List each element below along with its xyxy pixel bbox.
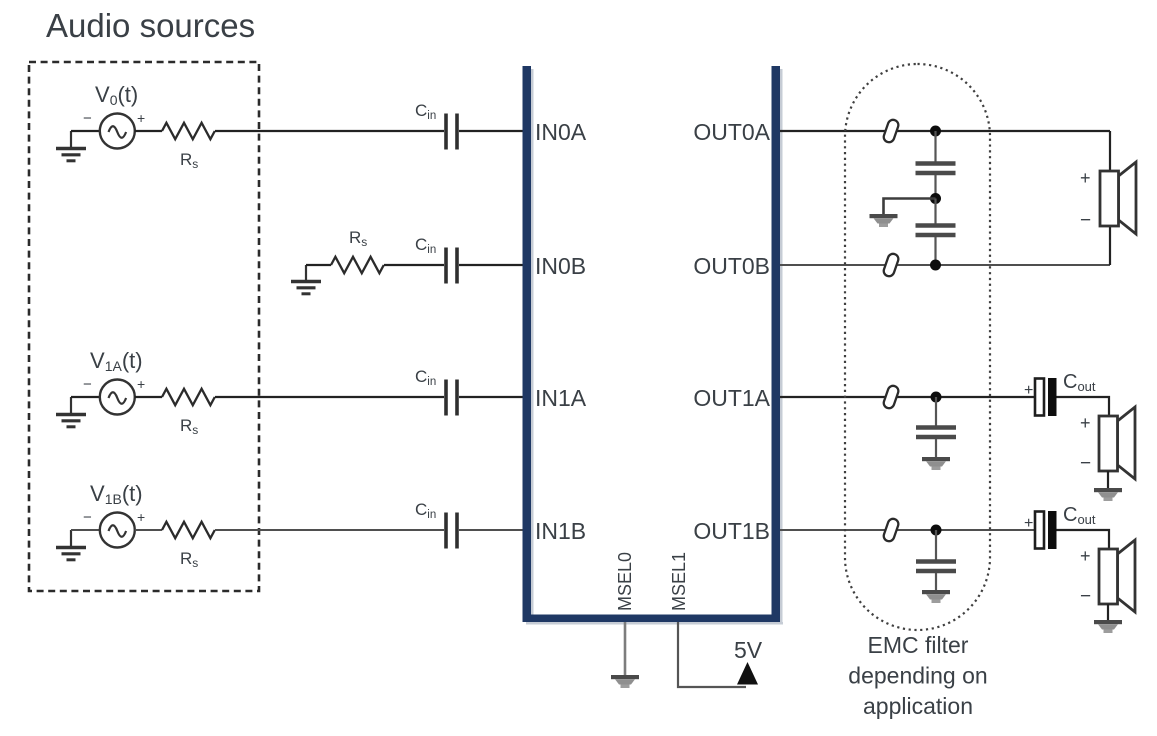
svg-text:Cin: Cin: [415, 235, 436, 256]
svg-text:−: −: [83, 376, 92, 393]
wire junction to shunt cap row3: [935, 397, 937, 426]
dashed box audio sources: [29, 62, 259, 591]
EMC shunt capacitor row4: [916, 562, 956, 572]
svg-text:+: +: [1080, 413, 1091, 433]
IC right bar: [772, 66, 781, 622]
wire resistor to Cin row1: [215, 130, 444, 132]
wire resistor to Cin row4: [215, 529, 444, 531]
wire MSEL1 to 5V: [678, 622, 746, 687]
wire OUT0A: [780, 130, 1110, 132]
wire cap to ground row4: [935, 573, 937, 590]
svg-text:Rs: Rs: [349, 228, 367, 249]
svg-text:Rs: Rs: [180, 150, 198, 171]
IC shadow: [526, 69, 783, 625]
svg-text:−: −: [1080, 453, 1091, 474]
resistor Rs (row2): [331, 257, 384, 273]
wire Cin to IN0B: [459, 264, 523, 266]
svg-text:depending on: depending on: [848, 663, 987, 689]
ground speaker2 (chassis): [1094, 488, 1122, 501]
speaker 1 wires: [1109, 131, 1111, 265]
voltage source V1A: [83, 376, 145, 415]
wire speaker3 to ground: [1107, 604, 1109, 620]
wire OUT1B: [780, 529, 1035, 531]
ground (V1B source): [56, 530, 86, 560]
wire capA to mid node: [934, 175, 936, 199]
ground (V1A source): [56, 397, 86, 427]
voltage source V0: [83, 110, 145, 149]
resistor Rs (row1): [162, 123, 215, 139]
svg-text:Rs: Rs: [180, 416, 198, 437]
voltage source V1B: [83, 509, 145, 548]
svg-text:OUT0B: OUT0B: [693, 253, 770, 279]
ground (IN0B): [291, 265, 321, 294]
ferrite bead row2: [882, 252, 899, 277]
wire junction to capA: [934, 131, 936, 162]
junction node row4: [931, 525, 942, 536]
EMC shunt capacitor row3: [916, 428, 956, 438]
speaker 2: [1099, 407, 1135, 479]
ground speaker3 (chassis): [1094, 620, 1122, 633]
wire ground to resistor row2: [306, 264, 331, 266]
wire ground to source V0: [71, 130, 100, 132]
wire Cout to speaker2: [1057, 397, 1110, 416]
wire MSEL0 to ground: [624, 622, 627, 676]
svg-text:Cin: Cin: [415, 367, 436, 388]
svg-text:OUT1A: OUT1A: [693, 385, 770, 411]
wire speaker2 to ground: [1107, 471, 1109, 488]
wire mid node to capB: [934, 199, 936, 225]
wire OUT1A: [780, 396, 1035, 398]
junction node row2: [930, 260, 941, 271]
svg-text:Cout: Cout: [1063, 371, 1096, 394]
svg-text:OUT1B: OUT1B: [693, 518, 770, 544]
ground EMC mid (chassis): [870, 214, 898, 227]
svg-text:Rs: Rs: [180, 549, 198, 570]
svg-text:5V: 5V: [734, 637, 763, 663]
wire source to resistor row3: [135, 396, 162, 398]
svg-text:V1B(t): V1B(t): [90, 481, 143, 507]
svg-text:+: +: [1080, 168, 1091, 188]
wire OUT0B: [780, 264, 1110, 266]
ground (V0 source): [56, 131, 86, 161]
speaker 1: [1100, 162, 1136, 234]
wire ground to source V1A: [71, 396, 100, 398]
svg-text:IN1A: IN1A: [535, 385, 587, 411]
ground EMC row4 (chassis): [922, 590, 950, 603]
capacitor Cin row2: [446, 248, 457, 284]
wire source to resistor row4: [135, 529, 162, 531]
svg-text:MSEL0: MSEL0: [615, 552, 635, 611]
ground EMC row3 (chassis): [922, 457, 950, 470]
svg-text:IN0A: IN0A: [535, 119, 587, 145]
wire Cin to IN0A: [459, 130, 523, 132]
speaker 3: [1099, 540, 1135, 612]
wire source to resistor: [135, 130, 162, 132]
capacitor Cin row1: [446, 114, 457, 150]
svg-text:+: +: [1024, 382, 1033, 399]
svg-text:V1A(t): V1A(t): [90, 348, 143, 374]
svg-text:EMC filter: EMC filter: [868, 632, 969, 658]
EMC capacitor A (top): [916, 164, 956, 174]
svg-text:−: −: [1080, 586, 1091, 607]
5V supply arrow: [737, 662, 758, 685]
svg-text:OUT0A: OUT0A: [693, 119, 770, 145]
capacitor Cout row3: [1035, 378, 1057, 416]
svg-text:+: +: [137, 376, 145, 392]
wire Cout to speaker3: [1057, 530, 1110, 549]
ferrite bead row4: [882, 517, 899, 542]
svg-text:+: +: [137, 110, 145, 126]
IC bottom bar: [523, 615, 781, 623]
resistor Rs (row4): [162, 522, 215, 538]
svg-text:+: +: [137, 509, 145, 525]
svg-text:+: +: [1080, 546, 1091, 566]
junction mid node: [930, 193, 941, 204]
junction node row3: [931, 392, 942, 403]
svg-text:Cout: Cout: [1063, 504, 1096, 527]
svg-text:+: +: [1024, 515, 1033, 532]
capacitor Cout row4: [1035, 511, 1057, 549]
svg-text:application: application: [863, 693, 973, 719]
EMC filter dotted boundary: [845, 64, 990, 630]
ferrite bead row3: [882, 384, 899, 409]
svg-text:Audio sources: Audio sources: [46, 7, 255, 44]
wire cap to ground row3: [935, 439, 937, 457]
wire ground to source V1B: [71, 529, 100, 531]
IC left bar: [523, 66, 532, 622]
wire Cin to IN1B: [459, 529, 523, 531]
wire resistor to Cin row2: [384, 264, 444, 266]
svg-text:−: −: [83, 110, 92, 127]
svg-text:IN1B: IN1B: [535, 518, 586, 544]
wire Cin to IN1A: [459, 396, 523, 398]
ground MSEL0 (chassis): [611, 675, 639, 688]
ferrite bead row1: [882, 118, 899, 143]
capacitor Cin row4: [446, 513, 457, 549]
capacitor Cin row3: [446, 380, 457, 416]
svg-text:−: −: [1080, 210, 1091, 231]
wire junction to shunt cap row4: [935, 530, 937, 560]
svg-text:V0(t): V0(t): [95, 82, 138, 108]
svg-text:Cin: Cin: [415, 101, 436, 122]
svg-text:IN0B: IN0B: [535, 253, 586, 279]
wire mid node to ground: [884, 199, 936, 215]
wire resistor to Cin row3: [215, 396, 444, 398]
svg-text:MSEL1: MSEL1: [669, 552, 689, 611]
svg-text:Cin: Cin: [415, 500, 436, 521]
svg-text:−: −: [83, 509, 92, 526]
junction node row1: [930, 126, 941, 137]
resistor Rs (row3): [162, 389, 215, 405]
EMC capacitor B (bottom): [916, 226, 956, 236]
wire capB to row2 junction: [934, 237, 936, 265]
